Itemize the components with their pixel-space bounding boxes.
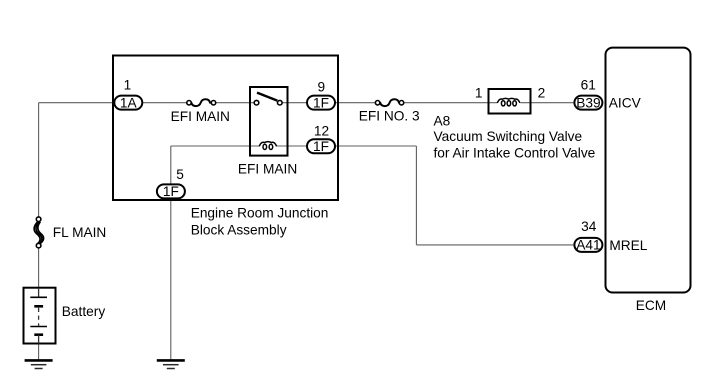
wire: 1F pin 9 to fuse EFI NO. 3 <box>336 102 376 104</box>
wire: horizontal to connector A41 MREL <box>416 244 573 246</box>
battery outline <box>24 288 56 344</box>
fuse EFI NO. 3 element <box>380 99 399 106</box>
svg-text:12: 12 <box>314 123 329 138</box>
VSV coil loop 2 <box>507 101 511 106</box>
wire: 1A to fuse EFI MAIN <box>143 102 187 104</box>
svg-text:1: 1 <box>124 78 132 93</box>
wire: vertical drop toward MREL <box>415 146 417 245</box>
relay coil loop 2 <box>269 144 273 149</box>
battery dashed center link <box>38 308 40 326</box>
junction block: Engine Room Junction Block Assembly outline <box>113 56 338 201</box>
svg-text:for Air Intake Control Valve: for Air Intake Control Valve <box>434 146 596 161</box>
svg-text:FL MAIN: FL MAIN <box>53 225 107 240</box>
svg-text:9: 9 <box>317 80 325 95</box>
connector oval A41 <box>574 238 602 252</box>
connector oval 1F pin 12 <box>307 139 335 153</box>
svg-text:1A: 1A <box>120 95 138 110</box>
connector oval 1F pin 9 <box>307 96 335 110</box>
svg-text:B39: B39 <box>576 95 600 110</box>
wire: left vertical battery feed down to FL MAIN <box>38 103 40 217</box>
wire: drop to connector 1F pin 5 <box>170 146 172 184</box>
fuse EFI NO. 3 terminal circle left <box>375 101 379 105</box>
svg-text:EFI MAIN: EFI MAIN <box>171 109 230 124</box>
svg-text:1: 1 <box>475 86 483 101</box>
battery plate short thick 2 <box>34 333 43 336</box>
relay coil arcs <box>259 142 276 147</box>
battery plate short thick 1 <box>34 305 43 308</box>
fusible link FL MAIN symbol <box>34 221 40 243</box>
svg-text:Engine Room Junction: Engine Room Junction <box>191 206 329 221</box>
wire: VSV pin 2 to connector B39 <box>521 102 574 104</box>
svg-text:1F: 1F <box>163 184 179 199</box>
relay switch contact circle left <box>254 100 259 105</box>
svg-text:EFI MAIN: EFI MAIN <box>238 162 297 177</box>
ECM box <box>606 48 691 293</box>
svg-text:5: 5 <box>176 167 184 182</box>
svg-text:ECM: ECM <box>636 298 666 313</box>
FL MAIN terminal circle bottom <box>36 243 41 248</box>
VSV coil loop 3 <box>513 101 517 106</box>
connector oval 1A <box>114 96 142 110</box>
relay coil loop 1 <box>263 144 267 149</box>
battery bottom connection stub <box>38 335 40 344</box>
wire: 1F pin 5 down to ground <box>170 199 172 359</box>
wire: relay switch contact to connector 1F pin 9 <box>282 102 306 104</box>
relay box EFI MAIN outline <box>250 87 288 156</box>
wire: fuse EFI NO. 3 to VSV pin 1 <box>404 102 498 104</box>
VSV coil arcs <box>497 98 520 103</box>
svg-text:MREL: MREL <box>609 238 647 253</box>
fuse EFI MAIN terminal circle left <box>187 101 191 105</box>
wire: FL MAIN to battery <box>38 248 40 288</box>
relay switch blade <box>257 93 277 101</box>
relay switch contact circle right <box>278 100 283 105</box>
fuse EFI NO. 3 terminal circle right <box>399 101 403 105</box>
svg-text:1F: 1F <box>313 139 329 154</box>
vacuum switching valve A8 box <box>489 89 531 114</box>
svg-text:A41: A41 <box>576 238 600 253</box>
svg-text:34: 34 <box>581 219 597 234</box>
svg-text:EFI NO. 3: EFI NO. 3 <box>359 109 420 124</box>
svg-text:AICV: AICV <box>609 96 642 111</box>
battery top connection stub <box>38 289 40 298</box>
fuse EFI MAIN element <box>191 99 210 106</box>
wire: battery to ground <box>38 345 40 360</box>
fuse EFI MAIN terminal circle right <box>211 101 215 105</box>
ground symbol (junction block) <box>157 360 185 368</box>
svg-text:2: 2 <box>538 86 546 101</box>
connector oval 1F pin 5 <box>157 184 185 198</box>
connector oval B39 <box>574 96 602 110</box>
svg-text:Vacuum Switching Valve: Vacuum Switching Valve <box>434 129 583 144</box>
svg-text:Battery: Battery <box>62 304 106 319</box>
svg-text:1F: 1F <box>313 95 329 110</box>
wire: fuse EFI MAIN to relay switch contact <box>216 102 255 104</box>
svg-text:61: 61 <box>581 78 596 93</box>
FL MAIN terminal circle top <box>36 217 41 222</box>
VSV coil loop 1 <box>501 101 505 106</box>
wire: 1F pin 12 to corner <box>336 145 417 147</box>
svg-text:Block Assembly: Block Assembly <box>191 223 287 238</box>
wire: battery feed horizontal to connector 1A <box>39 102 114 104</box>
wire: relay coil row from junction x170.8 to coil <box>171 145 260 147</box>
wire: relay coil to connector 1F pin 12 <box>277 145 307 147</box>
battery plate long 2 <box>30 326 47 328</box>
svg-text:A8: A8 <box>434 114 451 129</box>
battery plate long 1 <box>30 296 47 298</box>
ground symbol (battery) <box>25 360 53 368</box>
